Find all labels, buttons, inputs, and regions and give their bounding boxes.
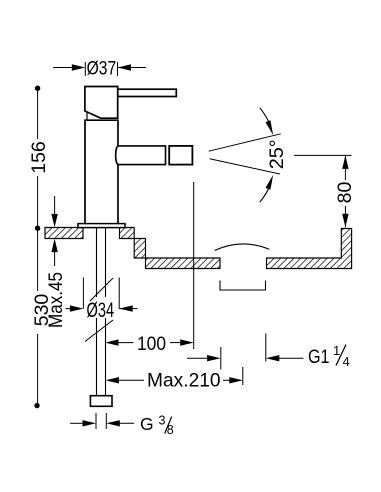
- shank break slash upper: [90, 278, 113, 301]
- angle arc upper with arrow: [260, 108, 273, 136]
- dim O34: [66, 278, 138, 312]
- dim Max.210: [106, 367, 243, 385]
- faucet base plate: [78, 224, 125, 228]
- svg-text:Max.45: Max.45: [45, 272, 67, 328]
- svg-text:8: 8: [167, 423, 174, 437]
- dim 530 vertical line with dot: [34, 228, 39, 408]
- dim Max.45 arrows: [51, 196, 57, 266]
- dim G 3/8: [70, 413, 134, 429]
- svg-text:1: 1: [333, 343, 340, 358]
- dim 100: [105, 182, 194, 349]
- dim G1 1/4 drain: [187, 334, 304, 370]
- dim 80 reference line: [294, 154, 352, 156]
- faucet shank (tailpiece): [97, 228, 106, 396]
- svg-text:Ø37: Ø37: [87, 58, 117, 80]
- svg-text:G1: G1: [308, 346, 330, 368]
- handle lever: [118, 89, 177, 96]
- svg-text:25°: 25°: [266, 139, 288, 169]
- cartridge cap: [85, 87, 118, 119]
- spray line upper: [209, 134, 281, 151]
- svg-text:Max.210: Max.210: [147, 370, 221, 392]
- svg-text:156: 156: [28, 141, 50, 174]
- bowl arc: [215, 244, 270, 250]
- faucet body: [84, 120, 119, 223]
- bidet rim right section (hatched): [267, 229, 352, 269]
- drain outline: [220, 281, 266, 291]
- svg-text:4: 4: [343, 354, 350, 369]
- spout: [116, 146, 166, 165]
- svg-text:3: 3: [159, 414, 166, 428]
- bidet deck left of faucet hole (hatched): [45, 228, 83, 239]
- cap notch: [86, 113, 88, 120]
- spray line lower: [210, 159, 280, 174]
- dim 156 vertical line with dots: [35, 86, 40, 231]
- label G1 1/4: [308, 343, 350, 369]
- aerator: [169, 146, 192, 165]
- svg-text:100: 100: [137, 333, 166, 355]
- dim O37: [53, 62, 146, 76]
- angle arc lower with arrow: [260, 175, 273, 203]
- svg-text:Ø34: Ø34: [87, 299, 115, 322]
- label G 3/8: [140, 414, 174, 438]
- shank break slash lower: [85, 320, 113, 342]
- bidet deck right of faucet hole and bowl step (hatched): [120, 228, 221, 269]
- supply nut G3/8: [90, 396, 112, 407]
- dim 80 vertical with arrows: [342, 155, 348, 227]
- svg-text:80: 80: [334, 182, 356, 204]
- svg-text:G: G: [140, 414, 154, 434]
